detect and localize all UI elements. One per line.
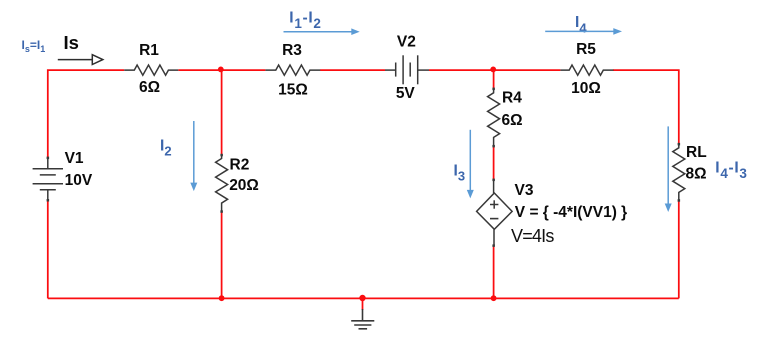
label I1-I2 <box>289 10 321 31</box>
wire node N2 down to R2 <box>221 70 223 155</box>
value expression of V3 <box>515 204 627 221</box>
label R1 <box>139 42 159 59</box>
label R2 <box>230 157 250 174</box>
arrow Is (black open arrow) <box>58 55 103 65</box>
label Is=I1 <box>22 38 46 54</box>
wire RL bottom to bottom-right corner <box>678 200 680 298</box>
svg-text:20Ω: 20Ω <box>229 177 259 194</box>
arrow I4 <box>545 28 622 35</box>
resistor R2 <box>216 155 228 212</box>
node 0 junction dot at V3 bottom <box>491 295 497 301</box>
arrow I3 <box>467 130 474 199</box>
resistor R5 <box>560 65 613 75</box>
label R4 <box>502 90 522 107</box>
value 10V of V1 <box>65 172 93 189</box>
svg-text:R4: R4 <box>502 90 522 107</box>
svg-text:V2: V2 <box>397 34 416 51</box>
wire R3 to V2 <box>320 69 385 71</box>
label R3 <box>282 42 302 59</box>
arrow I4-I3 <box>665 126 672 212</box>
svg-text:V = { -4*I(VV1) }: V = { -4*I(VV1) } <box>515 204 627 221</box>
svg-text:Is: Is <box>64 32 79 53</box>
svg-text:V=4Is: V=4Is <box>511 226 554 246</box>
ground <box>351 309 374 329</box>
node 0 junction dot at ground <box>359 295 365 301</box>
label I3 <box>454 163 466 184</box>
arrow I1-I2 <box>284 28 360 35</box>
wire V1 bottom to bottom-left corner <box>47 200 49 298</box>
dependent source V3 <box>477 180 512 246</box>
node 0 junction dot at R2 bottom <box>219 295 225 301</box>
label I2 <box>160 138 172 159</box>
svg-text:5V: 5V <box>396 85 416 102</box>
svg-text:R5: R5 <box>576 41 596 58</box>
resistor RL <box>673 144 685 201</box>
battery V2 <box>385 55 429 84</box>
svg-text:V3: V3 <box>515 182 534 199</box>
node N3 junction dot <box>490 67 496 73</box>
svg-text:R1: R1 <box>139 42 159 59</box>
wire ground stub <box>362 298 364 310</box>
svg-text:10Ω: 10Ω <box>571 80 601 97</box>
svg-text:6Ω: 6Ω <box>502 112 523 129</box>
label Is <box>64 32 79 53</box>
svg-text:R3: R3 <box>282 42 302 59</box>
svg-text:15Ω: 15Ω <box>278 82 308 99</box>
svg-text:6Ω: 6Ω <box>139 79 160 96</box>
label RL <box>686 144 707 161</box>
wire R2 bottom to bottom rail <box>221 212 223 299</box>
value 6Ω of R4 <box>502 112 523 129</box>
wire V3 bottom to bottom rail <box>493 246 495 299</box>
wire bottom ground rail <box>48 297 679 299</box>
svg-text:V1: V1 <box>65 150 84 167</box>
wire node N3 down to R4 <box>493 70 495 89</box>
wire R4 bottom to V3 top <box>493 146 495 181</box>
resistor R3 <box>265 65 320 75</box>
value 5V of V2 <box>396 85 416 102</box>
label R5 <box>576 41 596 58</box>
value 6Ω of R1 <box>139 79 160 96</box>
label I4 <box>575 14 587 35</box>
node N2 junction dot <box>218 67 224 73</box>
svg-text:RL: RL <box>686 144 707 161</box>
label V2 <box>397 34 416 51</box>
wire R1 to R3 through node N2 <box>178 69 265 71</box>
svg-text:R2: R2 <box>230 157 250 174</box>
label I4-I3 <box>715 160 747 181</box>
label V1 <box>65 150 84 167</box>
resistor R4 <box>488 89 500 147</box>
pin nubs at component terminals <box>47 88 681 247</box>
value 8Ω of RL <box>686 166 707 183</box>
label V3 <box>515 182 534 199</box>
value 15Ω of R3 <box>278 82 308 99</box>
arrow I2 <box>190 121 197 191</box>
resistor R1 <box>124 65 178 75</box>
value V=4Is of V3 <box>511 226 554 246</box>
value 20Ω of R2 <box>229 177 259 194</box>
wire V2 to R5 through node N3 <box>429 69 560 71</box>
value 10Ω of R5 <box>571 80 601 97</box>
svg-text:10V: 10V <box>65 172 93 189</box>
svg-text:8Ω: 8Ω <box>686 166 707 183</box>
wire R5 to top-right corner down to RL <box>613 70 679 144</box>
battery V1 <box>33 158 63 201</box>
wire top-left from V1 top up and right to R1 <box>48 70 124 158</box>
